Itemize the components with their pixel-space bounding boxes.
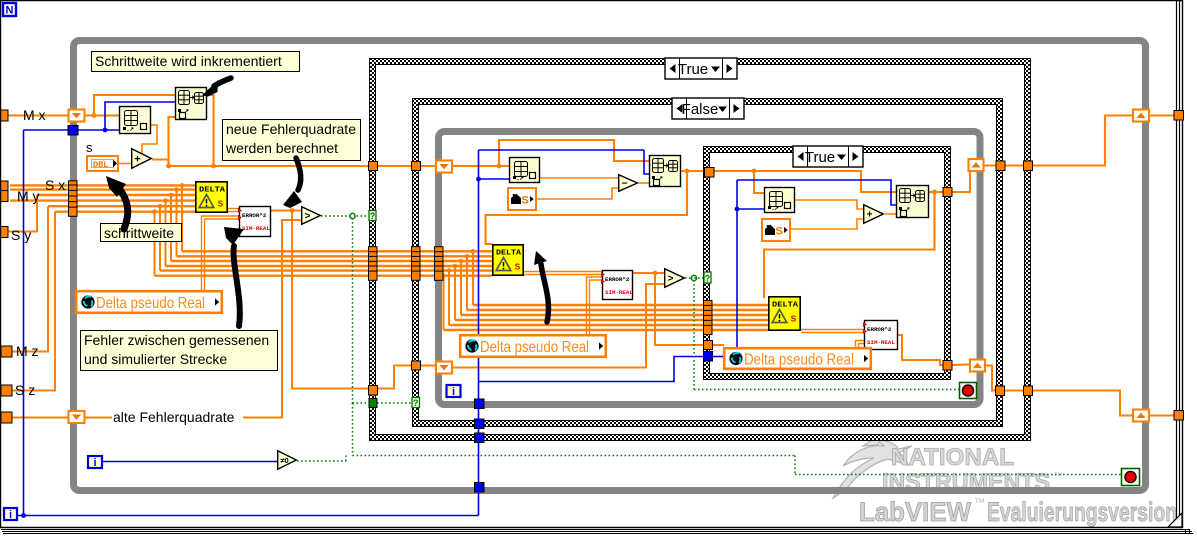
svg-text:ERROR^2: ERROR^2 — [867, 326, 892, 333]
svg-text:?: ? — [370, 211, 376, 221]
svg-text:True: True — [678, 61, 708, 78]
svg-text:™: ™ — [974, 497, 985, 509]
svg-text:+: + — [134, 153, 140, 165]
svg-text:>: > — [305, 211, 311, 222]
svg-text:Evaluierungsversion: Evaluierungsversion — [987, 497, 1177, 527]
svg-text:S x: S x — [45, 177, 65, 193]
svg-text:i: i — [93, 457, 96, 469]
svg-text:DELTA: DELTA — [496, 250, 522, 258]
svg-text:SIM·REAL: SIM·REAL — [242, 225, 270, 232]
svg-text:Delta pseudo Real: Delta pseudo Real — [96, 295, 205, 312]
svg-text:SIM·REAL: SIM·REAL — [605, 289, 633, 296]
svg-text:werden berechnet: werden berechnet — [225, 140, 338, 156]
svg-text:Delta pseudo Real: Delta pseudo Real — [480, 339, 589, 356]
svg-text:−: − — [622, 179, 628, 190]
svg-text:≠0: ≠0 — [280, 456, 288, 465]
svg-text:M z: M z — [16, 343, 39, 359]
svg-text:DELTA: DELTA — [199, 187, 226, 195]
svg-text:.↗: .↗ — [127, 126, 134, 133]
svg-text:S: S — [515, 262, 521, 272]
svg-text:>: > — [668, 274, 674, 285]
svg-text:neue Fehlerquadrate: neue Fehlerquadrate — [226, 121, 356, 137]
svg-text:S y: S y — [11, 227, 31, 243]
svg-text:?: ? — [705, 273, 711, 283]
svg-text:M y: M y — [17, 188, 40, 204]
svg-text:i: i — [452, 386, 455, 398]
svg-text:SIM·REAL: SIM·REAL — [867, 339, 895, 346]
svg-text:™: ™ — [1053, 471, 1063, 482]
svg-text:?: ? — [413, 398, 419, 408]
svg-text:S z: S z — [15, 382, 35, 398]
svg-text:+: + — [867, 210, 873, 221]
svg-text:LabVIEW: LabVIEW — [859, 497, 971, 527]
svg-text:DBL: DBL — [93, 160, 108, 170]
svg-text:True: True — [805, 149, 835, 166]
svg-text:s: s — [86, 140, 93, 155]
svg-text:ERROR^2: ERROR^2 — [605, 276, 630, 283]
svg-text:Fehler zwischen gemessenen: Fehler zwischen gemessenen — [84, 332, 269, 348]
svg-text:Schrittweite wird inkrementier: Schrittweite wird inkrementiert — [95, 53, 282, 69]
svg-text:NATIONAL: NATIONAL — [891, 444, 1014, 471]
svg-text:S: S — [522, 195, 529, 207]
svg-text:schrittweite: schrittweite — [104, 225, 174, 241]
svg-text:S: S — [218, 199, 224, 209]
svg-text:und simulierter Strecke: und simulierter Strecke — [84, 351, 227, 367]
svg-text:.↗: .↗ — [517, 175, 524, 182]
svg-text:S: S — [791, 314, 797, 324]
svg-text:Delta pseudo Real: Delta pseudo Real — [744, 351, 854, 368]
svg-text:i: i — [9, 509, 12, 521]
svg-text:False: False — [682, 101, 719, 118]
svg-text:DELTA: DELTA — [772, 302, 799, 310]
svg-text:alte Fehlerquadrate: alte Fehlerquadrate — [113, 409, 235, 425]
svg-text:.↗: .↗ — [772, 205, 779, 212]
svg-text:ERROR^2: ERROR^2 — [242, 212, 267, 219]
svg-text:N: N — [6, 5, 14, 17]
svg-text:S: S — [776, 226, 783, 238]
svg-text:M x: M x — [23, 107, 46, 123]
